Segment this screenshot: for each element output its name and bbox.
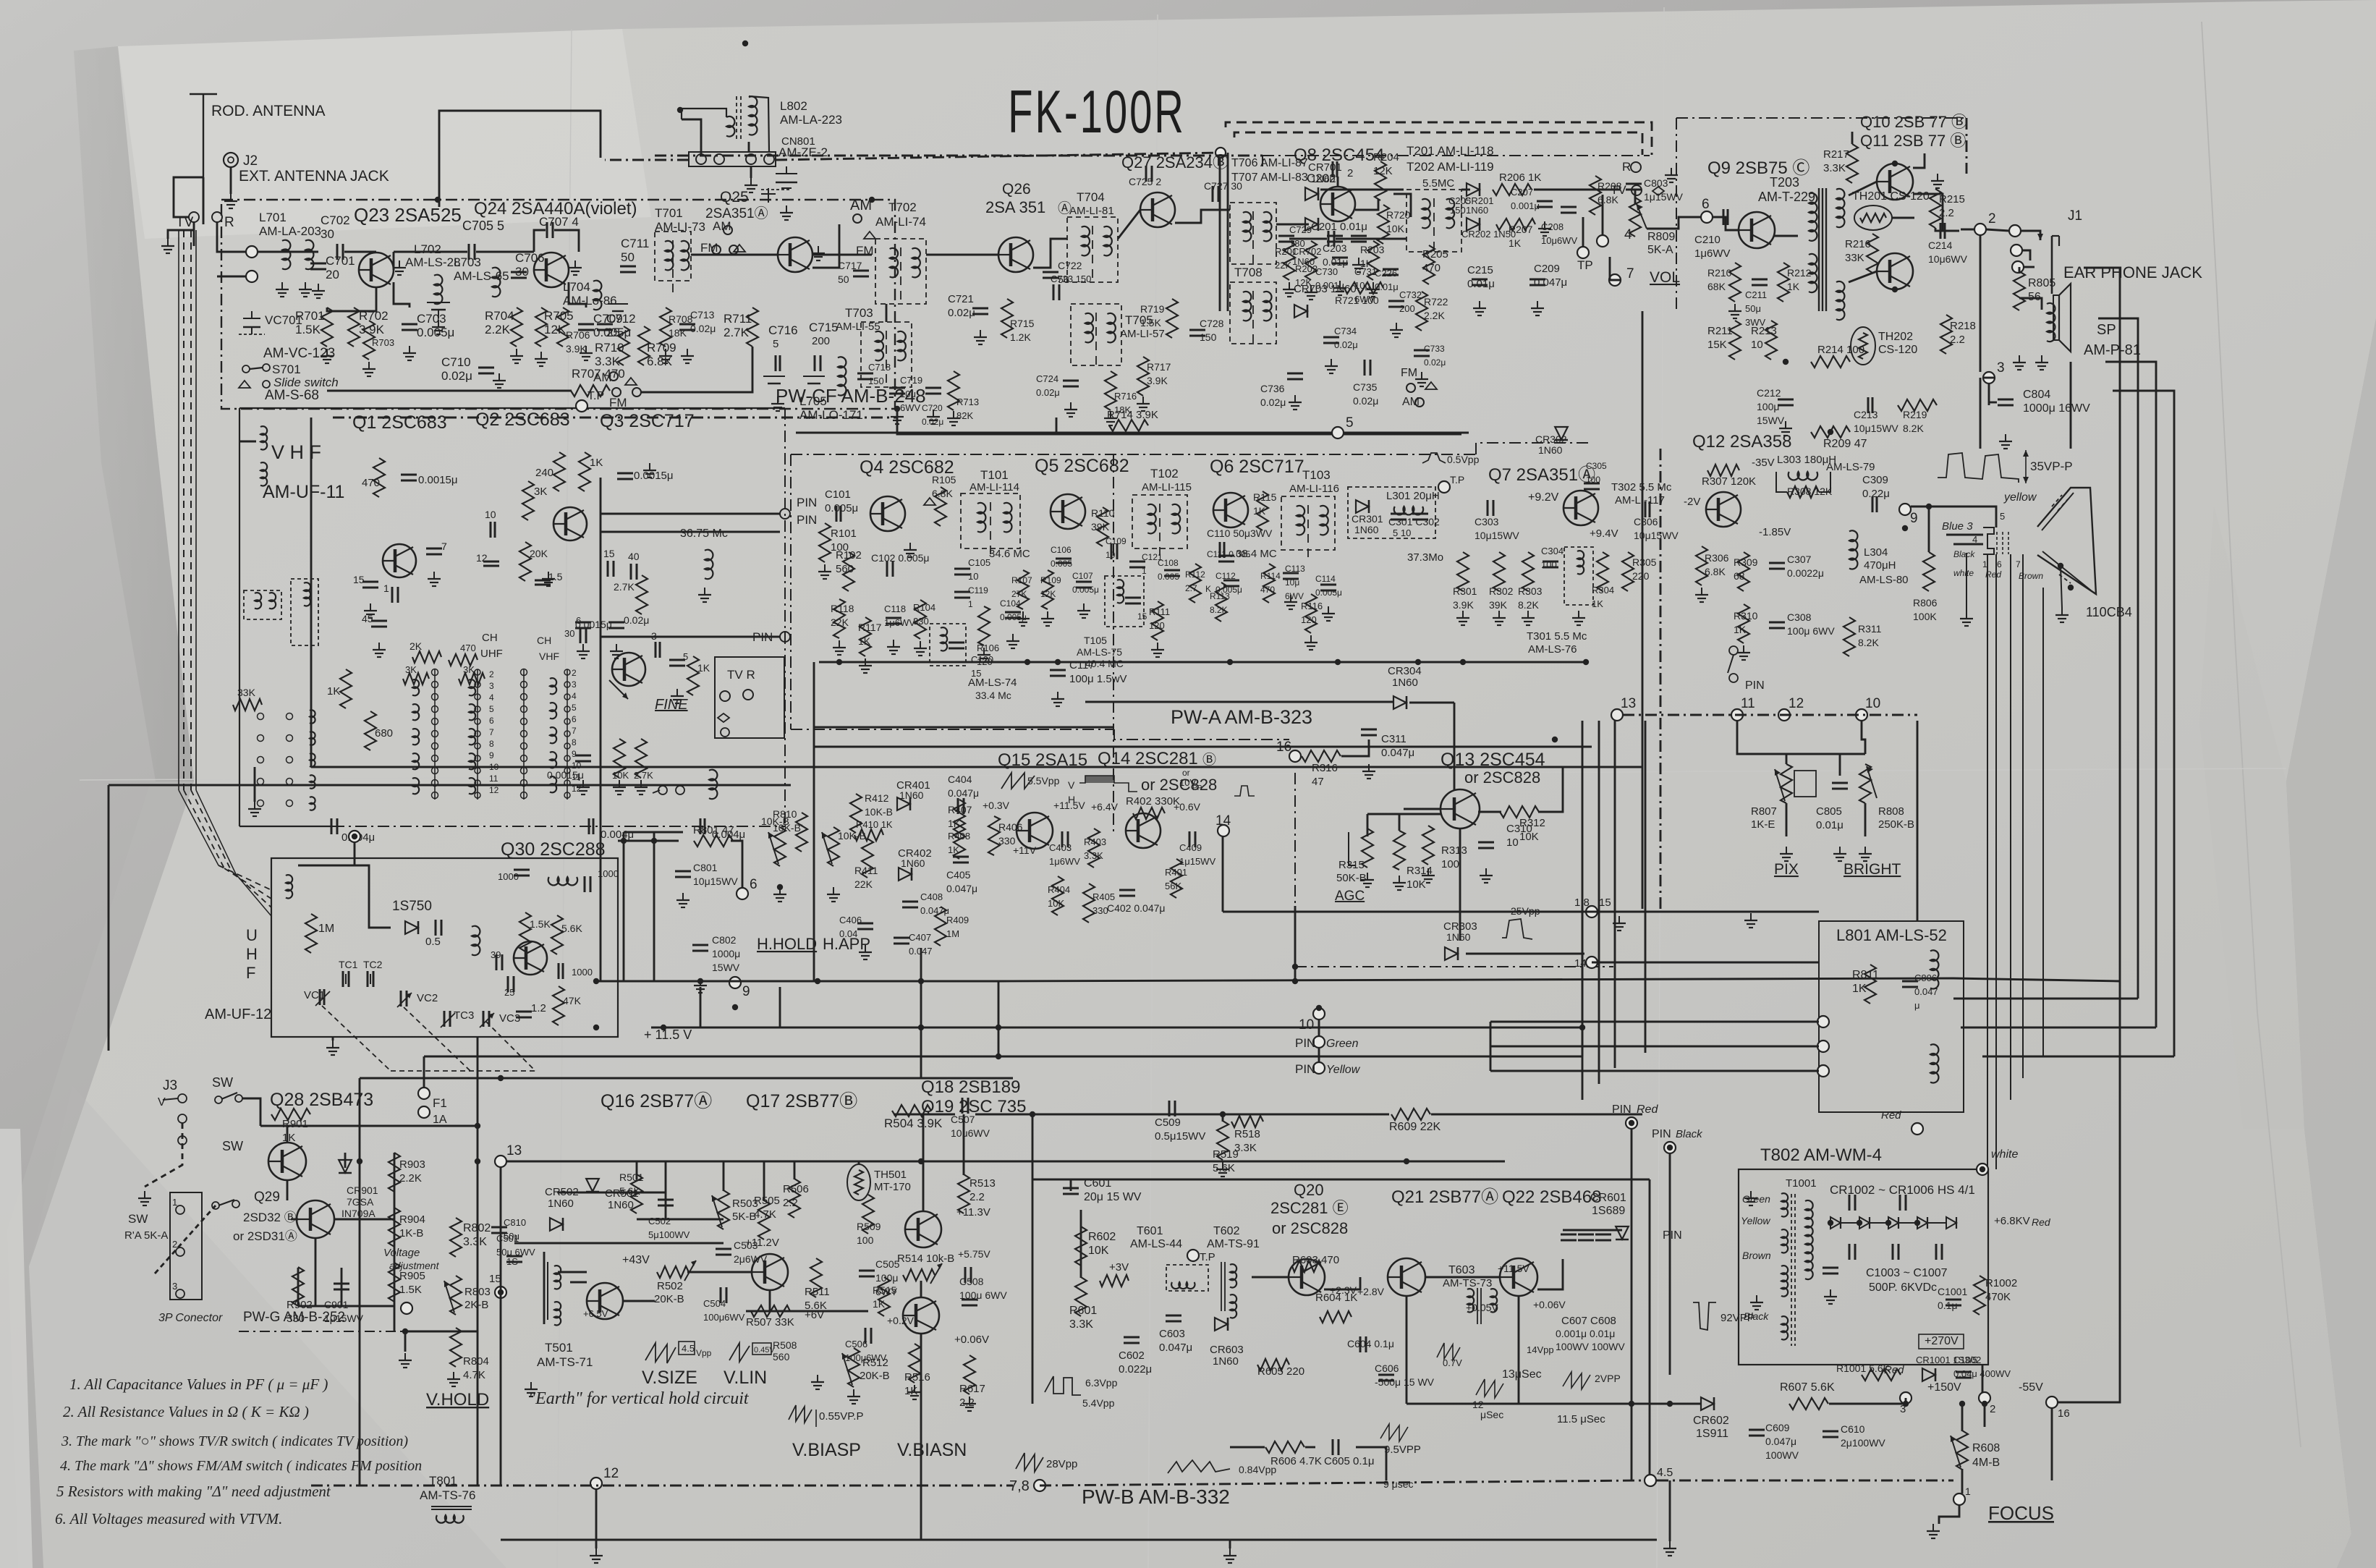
wire bus C	[109, 784, 791, 787]
wire c901 down	[341, 1268, 343, 1306]
wire q8 chain	[1355, 199, 1378, 210]
svg-text:C110 50μ3WV: C110 50μ3WV	[1207, 527, 1273, 539]
ground det	[1358, 258, 1359, 265]
resistor R411 22K	[862, 839, 873, 878]
wire pwcf bottom	[897, 409, 1461, 434]
svg-text:100μ 6WV: 100μ 6WV	[1787, 625, 1835, 637]
wire IF bottom bus	[819, 661, 1586, 664]
svg-text:20K-B: 20K-B	[654, 1293, 684, 1305]
trimmer T703 pair	[763, 376, 785, 377]
ground R203	[1372, 282, 1374, 289]
svg-text:6WV: 6WV	[1285, 591, 1304, 601]
svg-text:R811: R811	[1852, 969, 1879, 981]
node TP vhf	[576, 400, 587, 412]
svg-text:C702: C702	[321, 213, 350, 227]
svg-text:PW-CF AM-B-248: PW-CF AM-B-248	[776, 385, 926, 407]
trimmer VC1	[319, 989, 321, 1005]
resistor R308 12K	[1787, 486, 1819, 498]
node FM ant in2	[246, 271, 258, 282]
diode CR1001 1S315	[1922, 1368, 1935, 1381]
resistor R902 330	[292, 1267, 304, 1306]
wire TV to twinlead	[193, 222, 195, 246]
ground C710	[498, 373, 500, 381]
wire Q23 bias	[327, 287, 376, 311]
resistor R811 1K	[1864, 965, 1876, 1004]
resistor R805 56	[2014, 271, 2025, 310]
capacitor C1001 0.1u	[1946, 1299, 1961, 1301]
svg-text:3: 3	[172, 1281, 177, 1292]
terminal FM3	[1406, 383, 1415, 392]
capacitor 0.0015u q3b	[575, 755, 591, 757]
HV cap chain	[1849, 1195, 1851, 1211]
ground q2e	[548, 572, 549, 579]
svg-text:C101: C101	[825, 488, 851, 501]
svg-text:500P. 6KVDc: 500P. 6KVDc	[1869, 1281, 1937, 1294]
svg-text:8.2K: 8.2K	[1518, 599, 1539, 611]
node F1 b	[418, 1106, 430, 1118]
svg-text:30: 30	[515, 265, 529, 279]
resistor R705 12K	[535, 308, 547, 347]
wire v drop5	[858, 1161, 860, 1165]
resistor R405 330	[1083, 883, 1095, 923]
svg-text:R403: R403	[1084, 836, 1106, 847]
svg-text:560: 560	[773, 1351, 790, 1363]
capacitor C407 0.047	[894, 937, 909, 939]
vertical fold crease 1	[557, 29, 572, 1568]
capacitor C122 15	[1125, 597, 1141, 599]
svg-text:+11V: +11V	[1013, 844, 1037, 856]
wire verticals right mid3	[1614, 906, 1616, 1068]
svg-text:F1: F1	[433, 1096, 447, 1110]
svg-text:1μ6WV: 1μ6WV	[1694, 247, 1731, 260]
svg-text:C609: C609	[1765, 1422, 1790, 1433]
svg-text:10μ: 10μ	[1285, 577, 1299, 588]
channel selector contacts col 4	[477, 669, 478, 800]
svg-text:H: H	[246, 945, 258, 963]
svg-text:100μ 1.5wV: 100μ 1.5wV	[1069, 673, 1127, 685]
capacitor C716	[775, 355, 777, 371]
svg-text:R409: R409	[946, 915, 969, 925]
ground R101	[824, 564, 826, 572]
svg-text:39: 39	[491, 949, 501, 960]
svg-text:C901: C901	[324, 1299, 349, 1310]
ground TV lead	[167, 239, 169, 246]
resistor R410 1K	[854, 829, 883, 841]
wire vert 2270	[1642, 311, 1644, 909]
ground C709	[585, 346, 587, 353]
L801 board box	[1819, 921, 1964, 1112]
svg-text:1N60: 1N60	[1466, 205, 1488, 216]
diode CR303	[1445, 947, 1458, 960]
ground C212	[1785, 421, 1786, 428]
wire q13 right	[1478, 811, 1501, 813]
svg-text:VC701: VC701	[265, 313, 302, 327]
capacitor C506 100u6WV	[865, 1328, 867, 1344]
capacitor C725 2	[1145, 166, 1147, 182]
wire C707 loop2	[554, 230, 579, 252]
node 11	[1731, 709, 1743, 721]
svg-text:T703: T703	[845, 306, 873, 320]
channel selector coil column 3	[550, 678, 556, 694]
svg-text:T704: T704	[1077, 190, 1105, 204]
svg-text:12: 12	[603, 1466, 619, 1481]
ground C406	[865, 945, 866, 952]
wire antenna drop	[174, 177, 203, 217]
resistor R403 3.3K	[1088, 829, 1100, 868]
svg-text:R501: R501	[619, 1171, 644, 1183]
wire vreg v920	[665, 1161, 667, 1219]
wire vert top bus	[601, 1077, 1013, 1080]
svg-text:L702: L702	[414, 242, 441, 256]
resistor R210 68K	[1729, 263, 1741, 302]
svg-text:Q10 2SB 77 Ⓑ: Q10 2SB 77 Ⓑ	[1860, 113, 1967, 131]
svg-text:-2V: -2V	[1684, 496, 1700, 508]
svg-text:T1001: T1001	[1786, 1177, 1817, 1190]
svg-text:C712: C712	[606, 312, 636, 326]
capacitor C303 10u15WV	[1487, 500, 1489, 516]
pot R808 250K-B	[1859, 764, 1871, 803]
svg-text:0.22μ: 0.22μ	[1862, 488, 1890, 500]
wire q29 base	[291, 1219, 298, 1221]
svg-text:R617: R617	[959, 1383, 985, 1395]
resistor R118 22K	[833, 599, 845, 638]
svg-text:200: 200	[1399, 303, 1415, 314]
capacitor C605 0.1u	[1332, 1439, 1334, 1455]
wire c801 top	[624, 831, 683, 834]
svg-text:4: 4	[489, 692, 494, 703]
capacitor C1008	[1823, 1267, 1838, 1269]
resistor 1K q2	[579, 452, 590, 491]
capacitor 45 q1	[371, 620, 387, 622]
svg-text:AM-LI-73: AM-LI-73	[655, 220, 705, 234]
svg-text:R711: R711	[724, 312, 752, 326]
svg-text:R214 100: R214 100	[1817, 344, 1864, 356]
wire f1 up	[423, 1056, 425, 1088]
svg-text:SW: SW	[222, 1139, 243, 1153]
svg-text:T601: T601	[1137, 1225, 1163, 1237]
resistor R601 3.3K	[1075, 1277, 1087, 1316]
svg-text:T201 AM-LI-118: T201 AM-LI-118	[1406, 144, 1494, 158]
ground C801	[682, 893, 684, 900]
diode CR201 1N60	[1467, 183, 1480, 196]
svg-text:L703: L703	[454, 255, 481, 269]
svg-text:1K: 1K	[1253, 505, 1266, 517]
resistor R115 1K	[1257, 491, 1268, 530]
svg-text:0.02μ: 0.02μ	[1260, 397, 1286, 408]
resistor R402 330K	[1133, 808, 1165, 819]
svg-text:C728: C728	[1200, 318, 1224, 329]
svg-text:VHF: VHF	[539, 650, 559, 662]
wire rc3 top	[2105, 362, 2156, 383]
ground C215	[1479, 301, 1480, 308]
ground fb green	[1750, 1191, 1752, 1198]
svg-text:47K: 47K	[563, 995, 582, 1007]
ground L701b	[305, 282, 306, 289]
svg-text:2.7K: 2.7K	[724, 326, 750, 339]
wire vol to 6	[1647, 217, 1702, 229]
svg-text:5: 5	[1346, 415, 1354, 431]
capacitor C709 0.005u	[578, 323, 594, 326]
svg-text:0.01μ: 0.01μ	[1375, 281, 1399, 292]
svg-text:36.75 Mc: 36.75 Mc	[680, 527, 728, 540]
waveform 0.84Vpp	[1168, 1460, 1230, 1473]
svg-text:7: 7	[1626, 266, 1634, 281]
wire rc4 top	[2113, 391, 2174, 405]
L802 frame wire	[749, 96, 769, 152]
diode 1S750	[405, 921, 418, 934]
ground R111	[1157, 643, 1158, 650]
svg-text:3: 3	[1997, 360, 2005, 376]
svg-text:2.7K: 2.7K	[634, 770, 653, 781]
node 10 pin	[1313, 1008, 1325, 1020]
wire vhf left drop	[254, 767, 256, 802]
wire right col 3	[2155, 383, 2158, 1027]
resistor 240	[553, 452, 565, 491]
resistor R407 1K	[954, 800, 965, 839]
VHF tuner enclosure	[239, 407, 785, 409]
svg-text:10K-B: 10K-B	[865, 806, 893, 818]
svg-text:8: 8	[489, 739, 494, 749]
svg-text:AM-LI-116: AM-LI-116	[1289, 483, 1339, 495]
svg-text:+0.05V: +0.05V	[1466, 1302, 1498, 1313]
svg-text:R106: R106	[977, 643, 999, 653]
svg-text:100WV: 100WV	[1765, 1449, 1799, 1461]
wire c805 link	[1839, 754, 1841, 776]
svg-text:Q29: Q29	[254, 1190, 280, 1205]
paper edge shadow left	[74, 46, 194, 781]
capacitor 1000 a	[514, 869, 530, 871]
ground uhf	[332, 1041, 334, 1048]
svg-text:R516: R516	[904, 1371, 930, 1383]
wire pwcf top dashdot	[655, 155, 1263, 157]
ground C720	[933, 410, 934, 417]
node 4	[1597, 235, 1608, 247]
wire cn801 hook	[682, 119, 701, 155]
svg-text:L301 20μH: L301 20μH	[1386, 490, 1440, 502]
svg-text:1K: 1K	[1852, 983, 1867, 995]
diamond mark	[1652, 187, 1664, 195]
svg-text:1A: 1A	[433, 1114, 447, 1126]
wire vert 2187 up	[1582, 721, 1584, 906]
svg-text:AM-T-229: AM-T-229	[1758, 190, 1815, 204]
ground C713	[687, 349, 688, 356]
trimmer VC701	[243, 318, 260, 319]
waveform 25Vpp	[1502, 919, 1532, 939]
resistor R1002 470K	[1974, 1276, 1985, 1315]
capacitor C604 0.1u	[1359, 1336, 1362, 1352]
wire antenna to jack	[203, 177, 205, 224]
wire bottom bus right	[1657, 1480, 1953, 1482]
svg-text:AM-LI-115: AM-LI-115	[1142, 481, 1192, 493]
capacitor C736 0.02u	[1287, 373, 1303, 375]
svg-text:9.5VPP: 9.5VPP	[1384, 1444, 1421, 1456]
resistor R206 1K	[1493, 184, 1532, 195]
wire gnd TV	[168, 230, 194, 239]
svg-text:T105: T105	[1084, 635, 1107, 646]
wire mid vert1	[998, 981, 1000, 1056]
svg-text:3.3K: 3.3K	[1234, 1142, 1257, 1154]
transformer T104 box	[930, 624, 966, 666]
svg-text:PP: PP	[1192, 784, 1202, 792]
svg-text:C733: C733	[1424, 344, 1445, 354]
resistor R605 220	[1257, 1359, 1289, 1370]
wire c605 out	[1356, 1447, 1386, 1480]
svg-text:C724: C724	[1036, 373, 1058, 384]
wire uhf right v2	[653, 832, 655, 981]
svg-text:TH501: TH501	[874, 1169, 907, 1181]
inductor L703	[492, 268, 500, 297]
agc dashdot box	[1294, 773, 1296, 967]
waveform 0.5Vpp	[1422, 453, 1446, 463]
wire r217 top	[1851, 132, 1854, 144]
resistor R516 1K	[909, 1344, 920, 1383]
svg-text:150: 150	[1450, 205, 1466, 216]
svg-text:0.02μ: 0.02μ	[922, 417, 943, 427]
svg-text:T701: T701	[655, 206, 683, 220]
svg-text:Q30 2SC288: Q30 2SC288	[501, 839, 606, 860]
ground near R	[1671, 168, 1672, 175]
wire r507 row	[746, 1310, 868, 1313]
wire vert 2210 up	[1598, 721, 1600, 906]
capacitor C301	[1391, 513, 1406, 515]
transistor Q11	[1877, 253, 1913, 289]
svg-text:AM-LA-223: AM-LA-223	[780, 113, 842, 127]
node 2b	[1979, 1392, 1990, 1404]
resistor 20K q2	[519, 542, 531, 581]
waveform 0.7V	[1437, 1343, 1460, 1360]
wire sw to q28	[242, 1098, 260, 1126]
svg-text:1.5K: 1.5K	[1140, 317, 1161, 329]
wire vert 1690	[1222, 836, 1224, 912]
svg-text:100: 100	[1586, 475, 1600, 485]
svg-text:AM: AM	[850, 198, 872, 213]
wire tp stub	[1582, 217, 1584, 247]
node 12	[590, 1478, 602, 1489]
wire bus B	[311, 766, 1642, 768]
svg-text:V: V	[158, 1096, 166, 1109]
transistor Q7	[1564, 491, 1598, 525]
node 3b	[1900, 1392, 1912, 1404]
wire right col join2	[1953, 998, 2138, 1000]
svg-text:L304: L304	[1864, 546, 1888, 559]
transistor Q27	[1140, 192, 1175, 227]
svg-text:1000μ 16WV: 1000μ 16WV	[2023, 402, 2090, 415]
svg-text:CR601: CR601	[1590, 1192, 1626, 1204]
svg-text:SW: SW	[212, 1075, 233, 1090]
trimmer fine	[609, 680, 628, 699]
wire node4 up	[1602, 195, 1604, 235]
wire th201 link	[1892, 217, 1914, 219]
wire r801 left	[618, 840, 679, 842]
resistor R710 3.3K	[618, 326, 629, 365]
capacitor C732 200	[1388, 300, 1404, 302]
diode CR702 1N60	[1305, 218, 1318, 231]
wire fm in	[217, 222, 246, 252]
svg-text:R405: R405	[1092, 891, 1115, 902]
wire vol down	[1634, 197, 1637, 204]
resistor 3K q2	[522, 481, 534, 520]
svg-text:C722: C722	[1058, 260, 1082, 271]
capacitor C1002	[1956, 1371, 1972, 1373]
transistor Q21	[1388, 1258, 1425, 1296]
node 9 crt	[1899, 504, 1911, 515]
wire q21 q22	[1425, 1276, 1500, 1279]
capacitor C214 10u 6WV	[1940, 223, 1942, 239]
wire right col 2	[2137, 340, 2139, 999]
triangle mark q4	[924, 498, 935, 505]
wire hv bus down	[1982, 1365, 1984, 1392]
svg-text:1K: 1K	[873, 1298, 886, 1310]
resistor R208 6.8K	[1590, 176, 1601, 215]
svg-text:15K: 15K	[1707, 339, 1727, 351]
svg-text:100μ: 100μ	[1757, 401, 1779, 412]
ground fb brown	[1756, 1295, 1757, 1302]
svg-text:1N60: 1N60	[1392, 677, 1418, 689]
svg-text:R506: R506	[783, 1183, 809, 1195]
ground T501	[530, 1382, 532, 1389]
svg-text:15WV: 15WV	[712, 962, 740, 973]
resistor R201 22K	[1284, 241, 1295, 280]
svg-text:F: F	[246, 964, 255, 982]
ground bottom mid	[1669, 1541, 1671, 1548]
ground 12	[595, 1548, 597, 1556]
resistor R717 3.9K	[1137, 357, 1149, 396]
capacitor C729 180	[1278, 235, 1294, 237]
diode CR302 1N60	[1555, 427, 1568, 440]
node 1.8	[1586, 906, 1598, 918]
svg-text:2.7: 2.7	[1185, 583, 1197, 593]
ground R701	[326, 349, 328, 356]
svg-text:C406: C406	[839, 915, 862, 925]
node l801 3	[1817, 1065, 1829, 1077]
capacitor C304 100	[1543, 561, 1558, 563]
resistor R214 100	[1811, 356, 1850, 368]
svg-text:0.047μ: 0.047μ	[1765, 1436, 1796, 1447]
ground hv	[1830, 1289, 1831, 1297]
ground C703	[409, 346, 410, 353]
svg-text:CR602: CR602	[1693, 1415, 1729, 1427]
svg-text:11: 11	[572, 772, 581, 782]
svg-text:Q25: Q25	[720, 189, 749, 205]
svg-text:10: 10	[1751, 339, 1763, 351]
wire sync box right	[1649, 1179, 1651, 1480]
resistor R708 18K	[660, 308, 671, 347]
node jack c	[2012, 261, 2024, 273]
svg-text:AM-LS-75: AM-LS-75	[1077, 646, 1122, 658]
svg-text:Voltage: Voltage	[383, 1247, 420, 1259]
capacitor C601 20u15WV	[1063, 1187, 1079, 1190]
svg-text:C109: C109	[1106, 536, 1127, 546]
svg-text:10: 10	[1299, 1017, 1314, 1033]
svg-text:R117: R117	[858, 622, 882, 633]
wire node5 up	[1056, 418, 1058, 433]
svg-text:16: 16	[2058, 1407, 2070, 1420]
svg-text:AM-Lo-86: AM-Lo-86	[563, 294, 617, 308]
capacitor C504 100u6WV	[720, 1287, 722, 1303]
svg-text:33.4 Mc: 33.4 Mc	[975, 690, 1011, 701]
capacitor C406 0.04	[857, 923, 873, 925]
resistor R607 5.6K	[1789, 1398, 1828, 1410]
svg-text:R116: R116	[1301, 601, 1323, 611]
svg-text:100μ6WV: 100μ6WV	[703, 1312, 745, 1323]
svg-text:PW-B AM-B-332: PW-B AM-B-332	[1082, 1486, 1230, 1508]
ground c506	[817, 1375, 818, 1382]
resistor R106 120	[978, 606, 990, 645]
ground focus	[1932, 1524, 1934, 1531]
wire t602 q20	[1252, 1276, 1289, 1279]
svg-text:C207: C207	[1511, 187, 1533, 198]
svg-text:T102: T102	[1150, 467, 1179, 480]
